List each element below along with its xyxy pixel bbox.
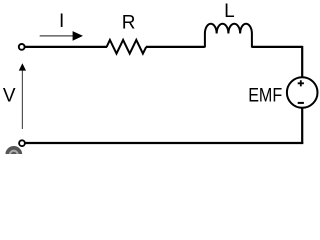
wire: right vertical top (corner to EMF source) bbox=[301, 46, 303, 78]
svg-text:I: I bbox=[59, 11, 64, 32]
current arrow I bbox=[40, 31, 83, 41]
watermark icon bbox=[5, 146, 22, 163]
voltage arrow V bbox=[19, 63, 26, 129]
svg-text:EMF: EMF bbox=[248, 85, 282, 106]
svg-text:R: R bbox=[122, 13, 136, 34]
wire: top segment (terminal to resistor) bbox=[24, 46, 107, 48]
svg-text:L: L bbox=[224, 1, 235, 22]
svg-text:V: V bbox=[3, 85, 16, 106]
EMF source V1 bbox=[287, 77, 318, 108]
resistor R1 bbox=[107, 40, 147, 54]
node: top-left terminal bbox=[19, 44, 25, 50]
node: bottom-left terminal bbox=[19, 140, 25, 146]
wire: top middle segment (resistor to inductor) bbox=[146, 46, 205, 48]
wire: right vertical bottom (EMF source to corner) bbox=[301, 108, 303, 144]
inductor L1 bbox=[205, 24, 252, 48]
wire: bottom segment bbox=[25, 142, 304, 144]
wire: top right segment (inductor to corner) bbox=[252, 46, 303, 48]
